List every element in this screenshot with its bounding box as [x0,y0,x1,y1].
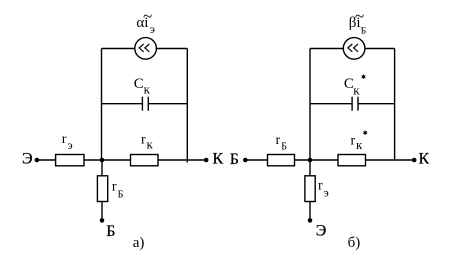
svg-text:К: К [419,151,430,168]
svg-text:Б: Б [118,190,124,201]
svg-text:К: К [213,151,224,168]
svg-text:r: r [318,179,323,194]
svg-text:к: к [147,136,154,151]
svg-text:а): а) [133,235,145,251]
svg-text:к: к [144,81,151,96]
svg-text:r: r [351,133,356,148]
svg-text:э: э [324,185,329,199]
svg-text:r: r [62,132,67,147]
svg-text:Э: Э [22,151,33,168]
svg-text:r: r [141,133,146,148]
svg-text:C: C [134,76,144,92]
svg-text:э: э [68,138,73,152]
svg-text:~: ~ [355,6,364,25]
svg-text:r: r [276,133,281,148]
svg-text:Э: Э [316,223,327,240]
svg-text:Б: Б [106,223,115,240]
svg-text:б): б) [348,235,361,251]
svg-text:э: э [150,22,155,36]
svg-text:Б: Б [361,27,366,37]
svg-text:к: к [356,137,363,152]
svg-text:Б: Б [230,151,239,168]
svg-text:r: r [112,180,117,195]
svg-text:Б: Б [281,141,287,152]
svg-text:к: к [353,82,360,97]
